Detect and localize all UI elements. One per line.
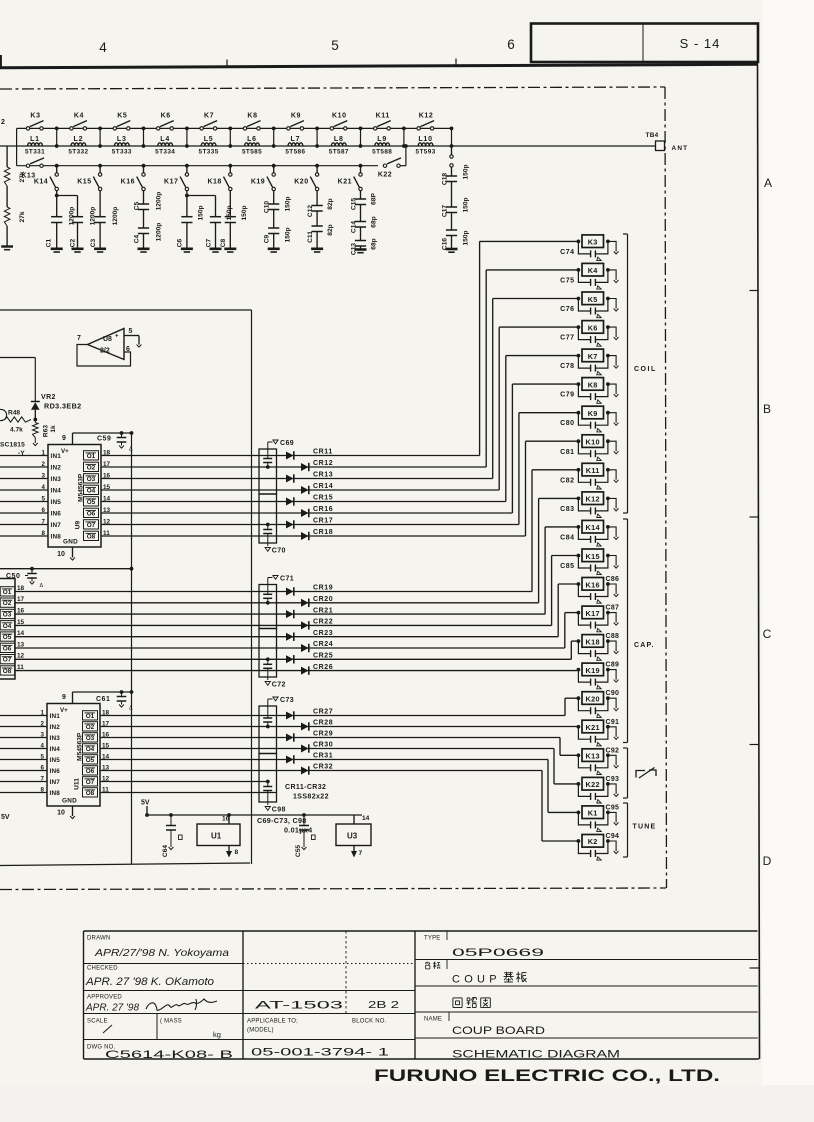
diode CR24 [301,644,309,652]
resistor 27k upper [4,167,10,186]
svg-text:1200p: 1200p [156,223,163,242]
relay contact K22 [383,164,386,167]
wire U9 input [0,466,48,468]
wire CR31 to relay K1 [286,759,548,761]
inductor L7 [288,143,303,146]
capacitor C90 [578,698,590,711]
svg-text:APR. 27 '98 K. OKamoto: APR. 27 '98 K. OKamoto [85,976,214,988]
ground [608,356,616,366]
capacitor C10 [273,191,275,204]
capacitor C5 [143,191,145,204]
svg-text:S - 14: S - 14 [680,36,721,51]
capacitor C18 [451,167,453,176]
svg-text:C12: C12 [307,205,314,217]
svg-text:5T331: 5T331 [25,149,45,156]
svg-text:C: C [763,627,772,641]
title block rows right [415,959,758,961]
svg-text:kg: kg [213,1030,221,1039]
svg-text:L7: L7 [291,136,301,143]
svg-text:CR28: CR28 [313,720,333,727]
svg-text:150p: 150p [463,230,470,245]
diode CR32 [301,767,309,775]
svg-text:GND: GND [63,539,78,546]
svg-text:C85: C85 [560,563,574,570]
svg-text:O1: O1 [3,589,12,596]
svg-text:2/2: 2/2 [100,348,110,355]
capacitor C73 [267,699,269,706]
svg-text:C17: C17 [442,205,449,217]
svg-text:5T588: 5T588 [372,149,392,156]
frame top border [0,64,758,68]
svg-text:C72: C72 [272,682,286,689]
relay contact K5 [113,127,116,130]
svg-text:1SS82x22: 1SS82x22 [293,794,329,801]
capacitor C85 [578,556,590,569]
svg-text:IN1: IN1 [50,713,61,720]
wire U9 output [101,501,286,503]
ground [608,556,616,566]
svg-text:27k: 27k [19,211,26,222]
svg-text:R48: R48 [8,410,20,417]
svg-text:C2: C2 [70,238,77,247]
wire CR15 to relay K7 [286,501,506,503]
svg-text:C13: C13 [351,243,358,255]
wire U9 input [0,478,48,480]
svg-text:C78: C78 [560,363,574,370]
svg-text:TB4: TB4 [646,132,659,139]
svg-text:D: D [763,854,772,868]
relay contact K18 [228,164,232,168]
relay contact K16 [142,164,146,168]
svg-text:C1: C1 [46,238,53,247]
svg-text:C6: C6 [177,238,184,247]
diode CR26 [301,667,309,675]
svg-text:K17: K17 [164,179,178,186]
diode CR15 [286,498,294,506]
wire K22 output vertical [405,146,407,166]
svg-text:C14: C14 [351,221,358,233]
svg-text:APPLICABLE TO;: APPLICABLE TO; [247,1019,298,1025]
svg-text:CR18: CR18 [313,529,333,536]
svg-text:CR30: CR30 [313,742,333,749]
svg-text:9: 9 [62,694,66,701]
svg-text:K19: K19 [586,666,600,675]
svg-text:O1: O1 [87,453,96,460]
svg-text:K8: K8 [247,113,257,120]
capacitor C84 [578,527,590,540]
relay coil K12 [577,497,581,501]
diode CR12 [301,463,309,471]
svg-text:IN7: IN7 [50,779,61,786]
relay contact K9 [287,127,290,130]
wire K13 row [17,165,378,167]
svg-text:IN8: IN8 [51,534,62,541]
wire CR30 to relay K22 [286,748,554,750]
relay contact K10 [330,127,333,130]
wire U11 input [0,726,47,728]
svg-text:05-001-3794- 1: 05-001-3794- 1 [251,1047,389,1059]
svg-text:4.7k: 4.7k [10,427,23,434]
ground [608,470,616,480]
wire C59 net [73,432,132,434]
ground [608,698,616,708]
svg-text:4: 4 [99,40,107,55]
inductor L3 [114,143,129,146]
wire U10 output [15,647,286,649]
wire junction vertical [316,128,318,146]
svg-text:L8: L8 [334,136,344,143]
resistor R48 [5,417,31,422]
IC U1 [197,824,240,846]
svg-text:O5: O5 [3,634,12,641]
svg-text:5V: 5V [141,800,150,807]
ground [608,670,616,680]
svg-text:L4: L4 [160,136,170,143]
svg-text:L1: L1 [30,136,40,143]
capacitor C72 [266,657,270,661]
frame tick right 3 [750,744,759,746]
svg-text:AT-1503: AT-1503 [255,1000,343,1012]
svg-text:IN7: IN7 [51,522,62,529]
wire U9 output [101,466,286,468]
diode CR27 [286,712,294,720]
wire U11 input [0,781,47,783]
IC U10 (partial) [0,579,15,680]
svg-text:C98: C98 [272,807,286,814]
svg-text:7: 7 [359,850,363,857]
terminal TB4 ANT [656,141,665,151]
wire U10 output [15,636,286,638]
capacitor C89 [578,670,590,683]
svg-text:M54563P: M54563P [77,732,84,761]
relay coil K16 [577,582,581,586]
svg-text:7: 7 [77,335,81,342]
svg-text:IN4: IN4 [50,746,61,753]
svg-text:K10: K10 [586,438,600,447]
capacitor C7 [215,196,217,217]
relay contact K19 [272,164,276,168]
svg-text:C61: C61 [96,696,110,703]
svg-text:10: 10 [57,810,65,817]
ground [608,384,616,394]
svg-text:68P: 68P [371,193,378,205]
svg-text:K6: K6 [161,113,171,120]
svg-text:82p: 82p [327,198,334,209]
svg-text:L9: L9 [377,136,387,143]
svg-text:K16: K16 [121,179,135,186]
wire U9 output [101,478,286,480]
svg-text:C11: C11 [307,231,314,243]
svg-text:8: 8 [235,849,239,856]
svg-text:K22: K22 [586,780,600,789]
svg-text:K19: K19 [251,179,265,186]
wire CR19 to relay K11 [286,591,532,593]
capacitor network C69 box upper [259,449,277,494]
wire U11 input [0,748,47,750]
ground [608,841,616,851]
wire op-amp box top [0,309,252,311]
capacitor C81 [578,441,590,454]
ground [608,441,616,451]
diode CR29 [286,734,294,742]
svg-text:150p: 150p [463,197,470,212]
svg-text:COIL: COIL [634,366,657,373]
capacitor C61 [117,696,127,698]
svg-text:Δ: Δ [129,706,133,712]
svg-text:C55: C55 [295,845,302,857]
wire U11 input [0,715,47,717]
svg-text:K12: K12 [586,495,600,504]
wire U11 output [100,792,277,794]
ground [608,755,616,765]
wire vertical V2 [251,310,253,864]
svg-text:C95: C95 [606,804,620,811]
wire U11 output [100,781,268,783]
svg-text:R63: R63 [43,425,50,437]
svg-text:O7: O7 [87,522,96,529]
wire U9 output [101,489,286,491]
svg-text:SCALE: SCALE [87,1019,108,1025]
svg-text:5T593: 5T593 [416,149,436,156]
wire [6,186,8,207]
svg-text:V+: V+ [60,707,68,714]
wire CR27 to relay K20 [286,715,565,717]
frame tick right 4 [750,967,760,969]
svg-text:C64: C64 [162,845,169,857]
wire C61 net [73,691,132,693]
ground [608,413,616,423]
ground [608,784,616,794]
relay contact K4 [70,127,73,130]
svg-text:5T585: 5T585 [242,149,262,156]
svg-text:O4: O4 [87,487,96,494]
inductor L2 [71,143,86,146]
capacitor C1 [56,191,58,196]
wire junction vertical [229,128,231,146]
svg-text:C82: C82 [560,477,574,484]
title block small ticks [446,931,448,940]
wire junction vertical [360,128,362,146]
capacitor C79 [578,384,590,397]
wire U10 output [15,670,286,672]
svg-text:1k: 1k [50,425,57,433]
svg-text:U11: U11 [74,778,81,790]
wire CR32 to relay K2 [286,770,542,772]
svg-text:K4: K4 [74,113,84,120]
wire CR16 to relay K8 [286,512,512,514]
svg-text:CR15: CR15 [313,495,333,502]
relay contact K8 [243,127,246,130]
relay contact K14 [55,164,59,168]
wire left divider [6,146,8,167]
svg-text:O7: O7 [86,779,95,786]
svg-text:K6: K6 [588,323,598,332]
wire U10 output [15,591,286,593]
sheet number box S-14 [531,24,758,63]
svg-text:C4: C4 [134,234,141,243]
wire U9 input [0,524,48,526]
svg-text:CR25: CR25 [313,653,333,660]
relay coil K7 [577,354,581,358]
ground [608,584,616,594]
svg-text:O2: O2 [3,600,12,607]
svg-text:C93: C93 [606,776,620,783]
svg-text:CR20: CR20 [313,596,333,603]
diode CR11 [286,452,294,460]
svg-text:IN3: IN3 [51,476,62,483]
svg-text:K7: K7 [204,113,214,120]
svg-text:CHECKED: CHECKED [87,966,118,972]
svg-text:IN4: IN4 [51,488,62,495]
relay coil K3 [577,240,581,244]
svg-text:TUNE: TUNE [633,824,657,831]
relay contact K7 [200,127,203,130]
relay contact K17 [185,164,189,168]
wire CR11 to relay K3 [286,455,480,457]
wire U10 output [15,613,286,615]
wire VR2 feed [0,357,35,359]
svg-text:K9: K9 [588,409,598,418]
wire U11 output [100,715,286,717]
svg-text:K17: K17 [586,609,600,618]
capacitor network C98 box lower [259,754,277,803]
svg-text:C15: C15 [351,198,358,210]
capacitor C55 [303,815,305,825]
board outline dash-dot top [0,87,665,89]
svg-text:(MODEL): (MODEL) [247,1028,274,1034]
svg-text:CAP.: CAP. [634,642,655,649]
relay coil K13 [577,753,581,757]
wire CR14 to relay K6 [286,489,499,491]
svg-text:CR19: CR19 [313,585,333,592]
svg-text:O7: O7 [3,657,12,664]
svg-text:6: 6 [507,37,515,52]
capacitor C15 [360,191,362,199]
svg-text:2: 2 [1,119,5,126]
wire U11 output [100,726,286,728]
label name-jp [426,962,428,964]
svg-text:O4: O4 [86,746,95,753]
svg-text:C73: C73 [280,697,294,704]
wire CR18 to relay K10 [286,535,526,537]
inductor L4 [158,143,173,146]
svg-text:150p: 150p [285,227,292,242]
capacitor C94 [578,841,590,854]
svg-text:O8: O8 [87,533,96,540]
wire ANT feed vertical [451,128,453,146]
wire U10 output [15,624,286,626]
ground [608,727,616,737]
wire CR12 to relay K4 [286,466,486,468]
svg-text:C16: C16 [442,238,449,250]
svg-text:IN3: IN3 [50,735,61,742]
wire U9 input [0,501,48,503]
svg-text:B: B [763,402,771,416]
wire U11 output [100,748,286,750]
frame tick top 1 [226,60,228,66]
svg-text:SC1815: SC1815 [0,442,25,449]
wire U10 output [15,658,286,660]
diode CR16 [301,509,309,517]
wire U11 input [0,759,47,761]
capacitor C69 [267,442,269,449]
relay contact K3 [26,127,29,130]
group bracket TUNE [627,803,629,857]
svg-text:5T333: 5T333 [112,149,132,156]
svg-text:C91: C91 [606,719,620,726]
capacitor C82 [578,470,590,483]
svg-text:CR22: CR22 [313,619,333,626]
svg-text:K7: K7 [588,352,598,361]
svg-text:VR2: VR2 [41,394,56,401]
zener diode VR2 [31,401,40,403]
diode CR28 [301,723,309,731]
wire junction vertical [403,128,405,146]
diode CR23 [286,633,294,641]
svg-text:O3: O3 [3,612,12,619]
svg-text:APR. 27 '98: APR. 27 '98 [85,1003,139,1014]
svg-text:O8: O8 [3,668,12,675]
wire U11 input [0,770,47,772]
svg-text:K14: K14 [586,523,601,532]
inductor L1 [28,143,43,146]
svg-text:IN5: IN5 [50,757,61,764]
relay coil K10 [577,439,581,443]
svg-text:C87: C87 [606,605,620,612]
svg-text:K20: K20 [294,179,308,186]
svg-text:K21: K21 [338,179,352,186]
svg-text:C81: C81 [560,449,574,456]
inductor L9 [375,143,390,146]
ground [608,299,616,309]
svg-text:C70: C70 [272,548,286,555]
svg-text:U3: U3 [347,832,358,841]
svg-text:O1: O1 [86,713,95,720]
ground [608,527,616,537]
svg-text:TYPE: TYPE [424,936,440,942]
svg-text:V+: V+ [61,448,69,455]
wire U11 output [100,737,286,739]
svg-text:CR24: CR24 [313,641,333,648]
wire U11 output [100,759,286,761]
svg-text:GND: GND [62,798,77,805]
svg-text:1200p: 1200p [112,207,119,226]
group bracket COIL [627,234,629,513]
svg-text:C83: C83 [560,506,574,513]
svg-text:5V: 5V [1,814,10,821]
svg-text:SCHEMATIC DIAGRAM: SCHEMATIC DIAGRAM [452,1049,620,1061]
diode CR19 [286,588,294,596]
capacitor C80 [578,413,590,426]
capacitor C88 [578,641,590,654]
wire left end vertical [16,128,18,165]
svg-text:C75: C75 [560,277,574,284]
svg-text:C74: C74 [560,249,574,256]
wire CR13 to relay K5 [286,478,493,480]
capacitor C8 [229,191,231,217]
wire C50 net [0,568,132,570]
relay contact K13 [26,164,29,167]
svg-text:O8: O8 [86,790,95,797]
svg-text:5T334: 5T334 [155,149,175,156]
wire junction vertical [143,128,145,146]
diode CR25 [286,655,294,663]
svg-text:IN8: IN8 [50,790,61,797]
diode CR22 [301,621,309,629]
diode CR21 [286,610,294,618]
capacitor C6 [186,191,188,196]
svg-text:U9: U9 [75,520,82,529]
